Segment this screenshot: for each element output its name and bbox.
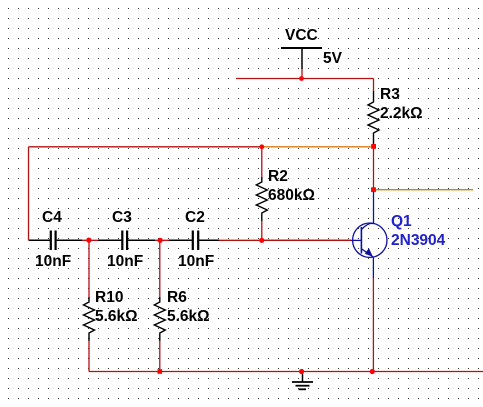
capacitor C3 <box>98 209 155 270</box>
ground symbol <box>292 372 313 390</box>
power VCC symbol <box>281 27 343 69</box>
svg-text:Q1: Q1 <box>391 213 412 230</box>
wire: R3 bottom to collector junction <box>373 147 375 190</box>
svg-text:R3: R3 <box>380 86 400 103</box>
node: collector output junction <box>371 187 376 192</box>
wire: R3 top lead red <box>373 79 375 92</box>
node: R3 bottom junction <box>371 144 376 149</box>
resistor R2 <box>256 147 315 241</box>
svg-text:R6: R6 <box>167 289 187 306</box>
resistor R3 <box>368 86 423 146</box>
resistor R6 <box>154 240 209 371</box>
node: R6 bottom junction <box>158 369 163 374</box>
svg-text:10nF: 10nF <box>178 253 214 270</box>
node: R2 bottom junction <box>259 238 264 243</box>
wire: feedback top red segment <box>29 146 262 148</box>
transistor Q1 <box>351 190 446 278</box>
wire: top VCC rail <box>236 78 374 80</box>
svg-text:VCC: VCC <box>285 27 318 44</box>
wire: base wire red segment <box>262 239 351 241</box>
wire: emitter to ground rail <box>372 278 374 372</box>
wire: orange collector output <box>374 189 473 191</box>
svg-text:5V: 5V <box>323 50 343 67</box>
wire: VCC stem red segment <box>301 69 303 79</box>
svg-text:680kΩ: 680kΩ <box>268 187 315 204</box>
svg-text:R10: R10 <box>95 289 123 306</box>
node: emitter junction <box>370 369 375 374</box>
svg-text:10nF: 10nF <box>107 253 143 270</box>
wire: left vertical feedback <box>28 147 30 241</box>
svg-text:2.2kΩ: 2.2kΩ <box>380 105 423 122</box>
svg-text:C2: C2 <box>185 209 205 226</box>
wire: orange segment R2 to R3 <box>262 146 374 148</box>
node: R2 top junction <box>259 144 264 149</box>
capacitor C2 <box>169 209 219 270</box>
resistor R10 <box>84 240 138 371</box>
svg-text:5.6kΩ: 5.6kΩ <box>95 308 138 325</box>
wire: bottom ground rail <box>89 371 483 373</box>
svg-text:C3: C3 <box>112 209 132 226</box>
wire: capacitor row baseline red segments <box>29 239 352 241</box>
node: C3-C2 junction <box>158 238 163 243</box>
svg-text:10nF: 10nF <box>35 253 71 270</box>
node: C4-C3 junction <box>86 238 91 243</box>
svg-text:C4: C4 <box>42 209 62 226</box>
node: ground junction <box>299 369 304 374</box>
capacitor C4 <box>29 209 82 270</box>
node: VCC junction <box>299 76 304 81</box>
svg-text:5.6kΩ: 5.6kΩ <box>167 308 210 325</box>
svg-text:2N3904: 2N3904 <box>391 232 446 249</box>
svg-text:R2: R2 <box>268 168 288 185</box>
